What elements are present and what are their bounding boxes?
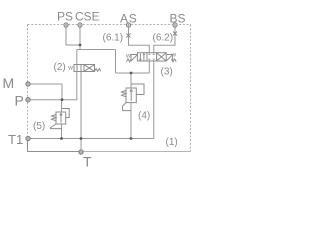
valve V5 drain loop	[51, 124, 62, 129]
valve V3 right spring	[171, 59, 176, 62]
junction node PS-CSE	[79, 44, 82, 47]
wire M line	[28, 84, 62, 100]
svg-text:(2): (2)	[54, 62, 66, 73]
valve V4 spring	[122, 90, 126, 96]
port CSE	[78, 23, 82, 27]
junction node V4 return	[130, 137, 133, 140]
valve V2 spring	[95, 69, 101, 72]
valve V4 arrow	[130, 89, 133, 101]
svg-text:AS: AS	[120, 12, 138, 26]
wire CSE drop	[79, 25, 81, 50]
wire T1 to T along corner	[28, 139, 82, 152]
svg-text:(6.1): (6.1)	[103, 33, 124, 44]
valve V5 arrow	[60, 113, 62, 122]
wire supply horizontal upper	[77, 49, 116, 51]
enclosure border (1) top edge	[28, 24, 192, 26]
wire P line	[28, 72, 77, 100]
enclosure border (1) right edge	[190, 25, 192, 152]
port M	[26, 82, 30, 86]
svg-text:(6.2): (6.2)	[153, 33, 174, 44]
svg-text:(5): (5)	[33, 121, 45, 132]
junction node V5 return	[60, 137, 63, 140]
svg-text:T: T	[83, 154, 92, 170]
port AS	[126, 23, 130, 27]
svg-text:CSE: CSE	[75, 10, 100, 24]
wire valve5 output	[61, 124, 63, 139]
svg-text:T1: T1	[8, 132, 23, 147]
port T	[79, 150, 83, 154]
wire AS drop	[129, 25, 150, 53]
valve V3 center box closed ports	[148, 53, 155, 55]
junction node V4 input	[130, 72, 133, 75]
valve V4 pressure valve	[122, 84, 144, 111]
wire supply horizontal lower	[116, 72, 150, 74]
valve V5 pilot loop	[62, 109, 70, 118]
valve V2 through lines	[77, 65, 81, 72]
wire valve2 right drop to return	[80, 65, 82, 139]
valve V5 body box	[56, 112, 66, 124]
enclosure border (1) bottom edge	[81, 151, 191, 153]
svg-text:BS: BS	[170, 12, 186, 26]
wire PS drop	[66, 25, 80, 45]
valve V3 body	[127, 53, 177, 62]
valve V5 pressure valve	[51, 109, 70, 129]
valve V2 body	[74, 65, 101, 72]
svg-text:(1): (1)	[166, 137, 178, 148]
wire valve4 output	[130, 103, 132, 139]
wire valve2 top feed	[76, 50, 78, 65]
wire BS drop	[154, 25, 175, 53]
valve V4 body box	[126, 88, 136, 103]
wire T1 return line	[28, 138, 154, 140]
port T1	[26, 136, 30, 140]
valve V2 X position	[84, 65, 94, 71]
valve V3 box3 crossed arrows	[157, 53, 166, 61]
valve V3 right solenoid box	[166, 55, 172, 62]
svg-text:P: P	[15, 93, 24, 109]
enclosure border (1) left edge	[27, 25, 29, 140]
orifice 6.2	[173, 32, 177, 36]
svg-text:(3): (3)	[161, 67, 173, 78]
wire T port drop	[80, 139, 82, 153]
wire valve5 input	[61, 100, 63, 112]
svg-text:M: M	[3, 75, 15, 91]
valve V3 left solenoid box	[131, 55, 137, 62]
valve V4 pilot loop	[131, 84, 144, 95]
wire supply vertical	[115, 50, 117, 74]
valve V3 box1 parallel arrows	[140, 53, 144, 60]
wire valve3 T return drop	[153, 61, 155, 139]
wire valve3 P riser	[148, 61, 150, 73]
svg-text:(4): (4)	[138, 111, 150, 122]
svg-text:w: w	[67, 65, 73, 72]
orifice 6.1	[127, 34, 131, 38]
port BS	[173, 23, 177, 27]
wire valve4 input	[130, 73, 132, 88]
port P	[26, 98, 30, 102]
junction node M-P	[61, 98, 64, 101]
valve V4 drain loop	[123, 103, 131, 111]
port PS	[64, 23, 68, 27]
junction node T return	[80, 137, 83, 140]
svg-text:PS: PS	[57, 10, 73, 24]
valve V5 spring	[52, 114, 56, 120]
valve V3 left spring	[127, 59, 132, 62]
